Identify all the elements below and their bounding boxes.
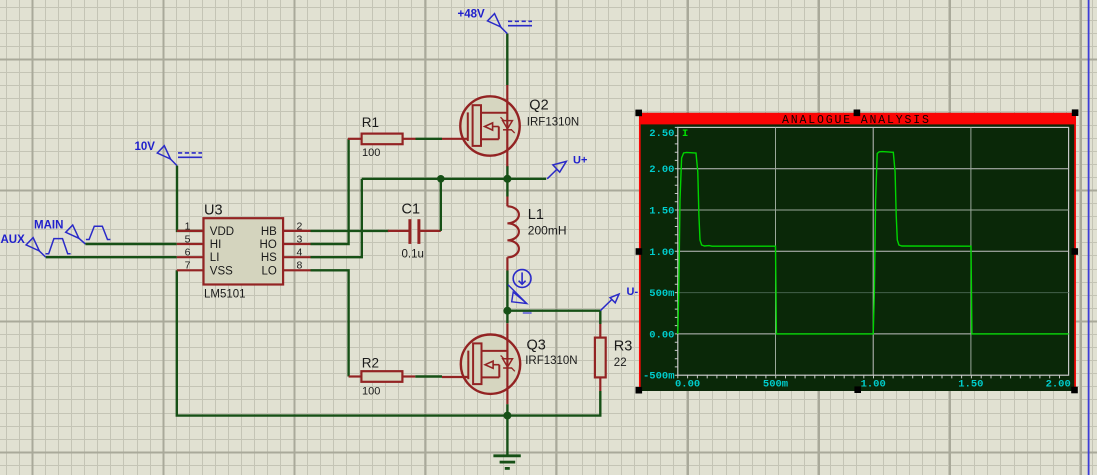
wire L1 bottom to lower node bbox=[506, 271, 508, 311]
svg-text:0.00: 0.00 bbox=[649, 329, 674, 341]
svg-text:2.50: 2.50 bbox=[649, 128, 674, 140]
wire switch node horizontal bbox=[362, 178, 546, 180]
resistor R3 bbox=[595, 324, 606, 391]
svg-text:2.00: 2.00 bbox=[1046, 379, 1071, 391]
junction C1/node bbox=[437, 175, 445, 183]
svg-text:HO: HO bbox=[260, 239, 277, 251]
ground bbox=[493, 456, 520, 469]
svg-text:500m: 500m bbox=[763, 379, 788, 391]
IC U3 LM5101 bbox=[177, 218, 311, 284]
svg-text:AUX: AUX bbox=[1, 234, 26, 246]
wire C1 up to switch node bbox=[440, 179, 442, 231]
svg-text:U+: U+ bbox=[573, 154, 587, 166]
wire to ground symbol bbox=[506, 416, 508, 456]
MOSFET Q2 bbox=[442, 85, 520, 166]
wire HO to R1 left bbox=[311, 139, 349, 244]
resistor R2 bbox=[349, 371, 416, 382]
svg-text:500m: 500m bbox=[649, 288, 674, 300]
graph title bar bbox=[639, 113, 1076, 125]
selection handle top-right bbox=[1072, 109, 1079, 116]
junction Q2 source node bbox=[503, 175, 511, 183]
junction ground rail bbox=[503, 412, 511, 420]
grid line x 500m bbox=[775, 127, 777, 375]
wire +48V rail down to Q2 drain bbox=[506, 34, 508, 85]
svg-text:1: 1 bbox=[185, 220, 191, 232]
svg-text:LO: LO bbox=[261, 265, 276, 277]
svg-text:2.00: 2.00 bbox=[649, 164, 674, 176]
wire 10V to U3 VDD bbox=[177, 166, 204, 231]
svg-text:R3: R3 bbox=[614, 338, 633, 354]
selection handle mid-left bbox=[636, 248, 643, 255]
selection handle mid-right bbox=[1072, 248, 1079, 255]
svg-text:Q3: Q3 bbox=[527, 337, 546, 353]
wire lower node to U- / R3 bbox=[507, 311, 600, 324]
selection handle top-left bbox=[635, 110, 642, 117]
svg-text:LI: LI bbox=[210, 252, 220, 264]
svg-text:10V: 10V bbox=[135, 141, 156, 153]
svg-text:HB: HB bbox=[261, 226, 277, 238]
selection handle bottom-right bbox=[1071, 387, 1078, 394]
svg-text:U3: U3 bbox=[204, 203, 223, 219]
grid line x 1.00 bbox=[872, 127, 874, 375]
svg-text:200mH: 200mH bbox=[528, 224, 567, 238]
sheet border bbox=[1088, 0, 1090, 475]
wire lower node to Q3 drain bbox=[506, 311, 508, 324]
grid line 0.00 bbox=[678, 333, 1069, 335]
svg-text:MAIN: MAIN bbox=[34, 219, 63, 231]
input terminal AUX bbox=[26, 238, 71, 258]
svg-text:R1: R1 bbox=[362, 115, 379, 130]
selection handle bottom-left bbox=[636, 387, 643, 394]
power terminal +48V bbox=[488, 14, 533, 34]
svg-text:VDD: VDD bbox=[210, 226, 234, 238]
current probe bbox=[508, 270, 531, 304]
svg-text:3: 3 bbox=[297, 233, 303, 245]
svg-text:-500m: -500m bbox=[643, 370, 675, 382]
wire U3 VSS down to ground rail bbox=[177, 270, 508, 415]
svg-text:6: 6 bbox=[185, 247, 191, 259]
x axis minor ticks bbox=[678, 375, 1060, 378]
svg-text:1.00: 1.00 bbox=[861, 379, 886, 391]
svg-text:0.00: 0.00 bbox=[675, 379, 700, 391]
grid line x 1.50 bbox=[970, 127, 972, 375]
grid line 1.00 bbox=[678, 250, 1069, 252]
svg-text:Q2: Q2 bbox=[529, 97, 548, 113]
inductor L1 bbox=[507, 197, 518, 271]
wire HB to C1 bbox=[311, 230, 389, 232]
svg-text:1.50: 1.50 bbox=[958, 379, 983, 391]
graph window red border bbox=[640, 114, 1075, 391]
wire node to L1 top bbox=[506, 179, 508, 197]
svg-text:IRF1310N: IRF1310N bbox=[527, 116, 579, 128]
wire Q3 source to ground rail bbox=[506, 404, 508, 415]
voltage probe U+ bbox=[547, 161, 566, 178]
svg-text:I: I bbox=[682, 128, 688, 140]
svg-text:IRF1310N: IRF1310N bbox=[525, 355, 577, 367]
svg-text:1.00: 1.00 bbox=[649, 247, 674, 259]
selection handle top-mid bbox=[854, 110, 861, 117]
svg-text:0.1u: 0.1u bbox=[402, 249, 424, 261]
junction lower node bbox=[503, 307, 511, 315]
wire AUX to U3 LI bbox=[46, 256, 177, 258]
svg-text:7: 7 bbox=[185, 260, 191, 272]
svg-text:22: 22 bbox=[614, 357, 627, 369]
svg-text:HI: HI bbox=[210, 239, 222, 251]
MOSFET Q3 bbox=[442, 323, 520, 404]
grid line 1.50 bbox=[678, 209, 1069, 211]
svg-text:8: 8 bbox=[297, 260, 303, 272]
svg-text:VSS: VSS bbox=[210, 265, 233, 277]
graph window background bbox=[640, 113, 1076, 391]
svg-text:100: 100 bbox=[362, 147, 380, 159]
svg-text:U-: U- bbox=[627, 286, 639, 298]
svg-text:C1: C1 bbox=[402, 201, 421, 217]
svg-text:5: 5 bbox=[185, 233, 191, 245]
capacitor C1 bbox=[388, 219, 441, 244]
grid line 2.00 bbox=[678, 168, 1069, 170]
hidden label marker bbox=[523, 311, 532, 314]
svg-text:100: 100 bbox=[362, 385, 380, 397]
svg-text:1.50: 1.50 bbox=[649, 206, 674, 218]
plot frame bbox=[678, 127, 1069, 375]
selection handle bottom-mid bbox=[854, 386, 861, 393]
power terminal 10V bbox=[157, 146, 202, 166]
svg-text:2: 2 bbox=[297, 220, 303, 232]
input terminal MAIN bbox=[66, 225, 111, 244]
svg-text:LM5101: LM5101 bbox=[204, 289, 246, 301]
wire R2 to Q3 gate bbox=[415, 375, 442, 377]
resistor R1 bbox=[348, 134, 416, 145]
svg-text:HS: HS bbox=[261, 252, 277, 264]
wire Q2 source to node bbox=[506, 166, 508, 179]
wire ground rail to R3 bottom bbox=[507, 391, 600, 416]
svg-text:4: 4 bbox=[297, 247, 303, 259]
wire LO down to R2 left bbox=[311, 270, 349, 376]
svg-text:R2: R2 bbox=[362, 356, 379, 371]
grid line 500m bbox=[678, 292, 1069, 294]
svg-text:L1: L1 bbox=[528, 207, 544, 223]
wire R1 to Q2 gate bbox=[416, 138, 443, 140]
voltage probe U- bbox=[600, 294, 619, 311]
y axis minor ticks bbox=[675, 127, 678, 375]
trace I bbox=[678, 152, 1069, 334]
svg-text:+48V: +48V bbox=[458, 9, 486, 21]
wire MAIN to U3 HI bbox=[85, 243, 176, 245]
wire HS to switch node bbox=[311, 179, 362, 257]
